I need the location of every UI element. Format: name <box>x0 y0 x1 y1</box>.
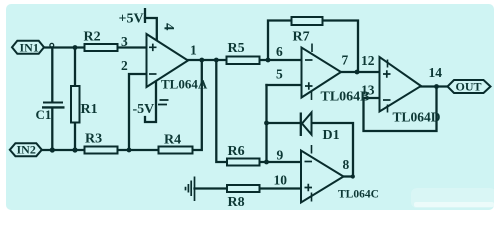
svg-text:6: 6 <box>276 44 283 59</box>
wire U1D output to OUT <box>421 85 448 87</box>
U1D power tick bottom <box>387 105 389 113</box>
U1C minus <box>305 161 313 163</box>
svg-text:TL064C: TL064C <box>338 189 379 201</box>
U1A plus <box>149 44 157 52</box>
op-amp U1B TL064B <box>302 48 342 98</box>
port OUT <box>448 80 491 93</box>
wire R4 to output node <box>193 60 202 150</box>
svg-text:OUT: OUT <box>456 80 482 94</box>
svg-text:R2: R2 <box>84 30 101 45</box>
power -5V double bar <box>158 100 169 105</box>
svg-text:8: 8 <box>343 157 350 172</box>
svg-text:13: 13 <box>361 83 375 98</box>
svg-text:9: 9 <box>277 148 284 163</box>
U1B plus <box>305 82 313 90</box>
junction dot pin8 corner <box>351 174 355 178</box>
svg-text:IN1: IN1 <box>20 41 39 55</box>
resistor R1 <box>71 86 80 123</box>
wire U1A output to R5 <box>188 59 227 61</box>
wire node to R6 <box>216 60 227 162</box>
wire C1 top <box>51 48 53 103</box>
junction dot pin7 node <box>355 70 360 75</box>
junction dot pin2 node <box>127 148 132 153</box>
port IN1 <box>12 41 44 54</box>
capacitor C1 top plate <box>43 102 63 104</box>
U1B power tick top <box>311 44 313 53</box>
capacitor C1 bottom plate <box>42 106 65 108</box>
wire C1 bottom <box>51 108 53 150</box>
resistor R3 <box>85 147 118 154</box>
svg-text:3: 3 <box>121 34 128 49</box>
diode D1 cathode bar <box>300 113 302 137</box>
wire IN2 to R3 <box>42 149 85 151</box>
svg-text:R4: R4 <box>164 133 181 148</box>
wire R7 loop left <box>268 21 292 61</box>
U1C power tick bottom <box>311 193 313 202</box>
wire R8 to pin10 <box>260 187 302 189</box>
ground <box>186 177 195 202</box>
junction ring near IN1 <box>50 43 54 47</box>
svg-text:2: 2 <box>121 58 128 73</box>
svg-text:R5: R5 <box>228 41 245 56</box>
U1D power tick top <box>387 60 389 68</box>
svg-text:7: 7 <box>342 53 349 68</box>
svg-text:14: 14 <box>429 65 443 80</box>
wire R3 to R4 <box>118 149 159 151</box>
port IN2 <box>10 143 42 156</box>
op-amp U1A TL064A <box>147 34 189 87</box>
U1D minus <box>383 99 391 101</box>
op-amp U1D TL064D <box>380 57 422 112</box>
svg-text:4: 4 <box>161 23 177 31</box>
junction dot C1 bottom <box>50 147 55 152</box>
svg-text:TL064A: TL064A <box>161 77 208 92</box>
svg-text:TL064D: TL064D <box>393 110 441 125</box>
wire R7 loop right <box>323 21 359 73</box>
U1A minus <box>149 73 157 75</box>
U1D plus <box>383 70 391 78</box>
wire D1 left <box>267 122 301 124</box>
svg-text:R8: R8 <box>228 195 245 210</box>
wire U1C output <box>344 175 354 177</box>
wire pin5 of U1B <box>267 84 302 86</box>
resistor R7 <box>292 17 323 25</box>
diode D1 <box>302 113 312 135</box>
wire +5V to pin4 of U1A <box>145 18 157 41</box>
junction dot pin14 node <box>434 84 439 89</box>
U1B power tick bottom <box>311 92 313 101</box>
wire U1B output to pin12 <box>341 71 380 73</box>
resistor R5 <box>227 57 260 65</box>
resistor R2 <box>85 44 118 51</box>
svg-text:R6: R6 <box>228 144 245 159</box>
svg-text:10: 10 <box>274 173 288 188</box>
resistor R4 <box>159 147 193 154</box>
wire D1 right down to pin8 <box>312 123 354 177</box>
junction dot D1 node <box>264 121 269 126</box>
junction dot pin9 node <box>264 160 269 165</box>
wire U1D feedback pin13 <box>364 87 437 132</box>
U1C plus <box>305 184 313 192</box>
wire R1 bottom <box>74 123 76 151</box>
op-amp U1C TL064C <box>301 151 344 203</box>
svg-text:R1: R1 <box>81 102 98 117</box>
wire -5V pin11 of U1A <box>145 80 156 122</box>
svg-text:D1: D1 <box>323 128 340 143</box>
wire pin2 of U1A <box>129 74 147 150</box>
U1C power tick top <box>311 145 313 154</box>
svg-text:-5V: -5V <box>133 102 155 117</box>
svg-text:R3: R3 <box>85 132 102 147</box>
junction dot output node 1 <box>199 58 204 63</box>
junction dot R1 top <box>73 45 78 50</box>
power +5V pin bar <box>144 8 146 23</box>
U1B minus <box>305 59 313 61</box>
svg-text:1: 1 <box>190 43 197 58</box>
svg-text:IN2: IN2 <box>17 143 36 157</box>
wire pin5 node down to pin9 <box>265 85 267 162</box>
junction dot R1 bottom <box>72 147 77 152</box>
svg-text:5: 5 <box>276 67 283 82</box>
junction dot pin6 node <box>266 58 271 63</box>
wire R1 top <box>74 48 76 87</box>
watermark remnant bottom-right <box>411 188 496 208</box>
svg-text:R7: R7 <box>293 30 310 45</box>
wire R5 to pin6 <box>260 59 302 61</box>
svg-text:C1: C1 <box>36 107 52 122</box>
wire ground to R8 <box>195 187 228 189</box>
resistor R6 <box>227 159 260 166</box>
svg-text:+5V: +5V <box>119 12 144 27</box>
resistor R8 <box>227 185 260 192</box>
wire R6 to pin9 <box>260 161 302 163</box>
svg-text:12: 12 <box>361 53 375 68</box>
wire IN1 to pin3 <box>44 46 147 48</box>
junction dot output node 2 <box>214 58 219 63</box>
